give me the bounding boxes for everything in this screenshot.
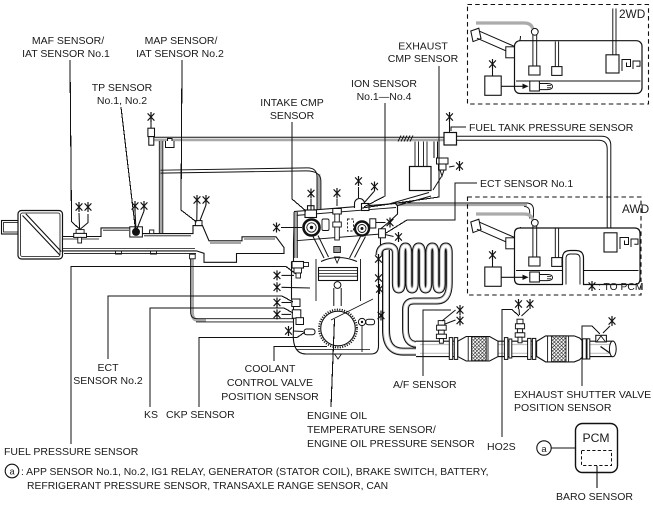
leader EXHAUST CMP label [362, 66, 439, 208]
in-tank pump parts [529, 257, 540, 266]
svg-text:COOLANT: COOLANT [245, 363, 296, 375]
engine assembly [292, 199, 398, 360]
fuel pump module right [604, 233, 617, 252]
asterisk AWD tank unit leader [492, 260, 494, 267]
AWD fuel tank detail box [468, 197, 642, 295]
MAF sensor on duct [76, 230, 84, 234]
asterisk fuel tank pressure sensor [449, 122, 451, 132]
tank top fitting circle [531, 28, 538, 35]
connector at left end of vapor line [148, 128, 155, 136]
leader MAP sensor label [181, 60, 197, 222]
svg-text:REFRIGERANT PRESSURE SENSOR, T: REFRIGERANT PRESSURE SENSOR, TRANSAXLE R… [27, 481, 388, 492]
svg-text:EXHAUST SHUTTER VALVE: EXHAUST SHUTTER VALVE [514, 389, 651, 401]
2WD fuel tank detail box [468, 5, 649, 105]
duct lower bumps [116, 251, 157, 254]
asterisk right engine box A [376, 222, 386, 224]
filler tube [480, 222, 514, 237]
svg-text:EXHAUST: EXHAUST [398, 41, 448, 53]
main catalytic converter [537, 336, 583, 362]
leader ENGINE OIL label [331, 319, 335, 407]
tail pipe open end [609, 341, 616, 357]
wire: gray fuel line dropping under duct and running to engine [192, 254, 206, 320]
svg-text:SENSOR: SENSOR [270, 110, 315, 122]
svg-text:TEMPERATURE SENSOR/: TEMPERATURE SENSOR/ [307, 424, 436, 436]
filler elbow [511, 36, 521, 53]
leader CKP SENSOR label [199, 332, 305, 407]
flange pair after downpipe [449, 338, 452, 360]
duct inner lines [63, 230, 276, 248]
transfer arrow [501, 85, 524, 87]
svg-text:2WD: 2WD [619, 7, 645, 21]
filler elbow [511, 227, 521, 244]
ECT sensor No.2 on block [292, 299, 300, 307]
catalytic converter (warm-up TWC) [458, 337, 498, 362]
leader EXHAUST SHUTTER VALVE label [582, 326, 600, 386]
pump supply lines from top [613, 9, 616, 55]
air intake system [2, 211, 285, 263]
exhaust shutter valve sensor box [596, 335, 607, 342]
ECT sensor No.1 boss on right edge [379, 229, 386, 238]
fuel tank outline 2WD [515, 41, 643, 94]
leader KS label [150, 308, 293, 407]
asterisks HO2S leaders [518, 309, 521, 315]
valve cover top inner edge [295, 208, 396, 216]
small cover detail rects [322, 219, 329, 231]
fuel tank outline AWD (saddle type) [515, 228, 641, 285]
asterisks A/F sensor leaders [442, 310, 456, 321]
svg-text:TP SENSOR: TP SENSOR [92, 82, 153, 94]
vent check valve box [506, 47, 518, 58]
dashed frame 2WD [468, 5, 649, 105]
flange after second cat [583, 339, 587, 359]
wire: evap hose from engine to canister (double diagonal) [366, 193, 429, 211]
small box hanging under vapor line [166, 139, 175, 148]
svg-text:ENGINE OIL PRESSURE SENSOR: ENGINE OIL PRESSURE SENSOR [307, 438, 475, 450]
svg-text:a: a [9, 467, 15, 477]
MAP sensor on duct [195, 221, 202, 226]
exhaust cam sprocket [355, 222, 369, 236]
wire: canister pipes up to vapor line [415, 142, 427, 167]
asterisk intake cam sensor [310, 199, 312, 210]
gray fuel hose to filler [476, 23, 533, 29]
piston [319, 268, 358, 281]
wire: vapor line left segment (gray hose) [154, 139, 445, 142]
asterisk ion sensor (plug) [336, 199, 338, 207]
wire: fuel pipe from engine to AWD tank filler area [396, 202, 528, 204]
leader MAF sensor label [70, 60, 79, 229]
asterisk right engine box B [385, 235, 394, 237]
oil temperature sensor (pill) [366, 319, 375, 324]
asterisks MAP pair [196, 205, 198, 221]
svg-text:a: a [541, 444, 547, 455]
asterisk 2WD tank unit leader [492, 69, 494, 76]
combustion chamber arc [321, 258, 357, 262]
knock sensor (KS) on block [292, 310, 301, 318]
svg-text:MAF SENSOR/: MAF SENSOR/ [32, 35, 104, 47]
asterisks TP pair [135, 211, 136, 230]
svg-text:HO2S: HO2S [487, 441, 516, 453]
svg-text:FUEL TANK PRESSURE SENSOR: FUEL TANK PRESSURE SENSOR [469, 122, 634, 134]
wire: gray drop line from connector to intake duct [160, 141, 163, 233]
intake cam sensor on cover [308, 206, 315, 211]
filler tube [480, 31, 514, 46]
exhaust line assembly [416, 319, 616, 362]
ion sensor / spark plug [333, 209, 342, 215]
fuel pipe connector at pan [296, 318, 304, 325]
engine right-edge box A [370, 219, 376, 228]
svg-text:No.1—No.4: No.1—No.4 [357, 91, 412, 103]
shutter butterfly plate [601, 347, 613, 355]
svg-text:IAT SENSOR No.1: IAT SENSOR No.1 [22, 48, 110, 60]
leader HO2S label [502, 310, 519, 438]
wire: vapor line right segment to AWD tank (double line) [457, 136, 611, 233]
asterisk exhaust cam sensor [358, 187, 360, 198]
filler cap [471, 28, 481, 41]
asterisk exhaust shutter valve leader [603, 326, 610, 333]
svg-text:AWD: AWD [622, 202, 649, 216]
filler cap [471, 219, 481, 232]
svg-text:: TO PCM: : TO PCM [598, 282, 643, 293]
A/F sensor on pipe [436, 321, 446, 344]
hatched flex section of vapor line [398, 136, 413, 142]
purge solenoid valve [433, 142, 448, 191]
note: asterisk TO PCM [589, 281, 644, 293]
asterisks engine-left column leaders [282, 274, 295, 276]
asterisk purge valve [449, 166, 455, 167]
fresh air snout [2, 221, 19, 235]
svg-text:ENGINE OIL: ENGINE OIL [307, 410, 367, 422]
dipstick tube diagonal [331, 299, 373, 320]
svg-text:CKP SENSOR: CKP SENSOR [166, 409, 235, 421]
sender unit box (lower-left) [485, 76, 501, 95]
svg-text:MAP SENSOR/: MAP SENSOR/ [145, 35, 218, 47]
wire: vacuum line across to engine, turning down as gray drop [317, 174, 320, 211]
svg-text:CMP SENSOR: CMP SENSOR [388, 53, 459, 65]
vapor/fuel line assembly (top horizontal run) [148, 128, 611, 322]
leader A/F SENSOR label [423, 310, 451, 376]
svg-text:IAT SENSOR No.2: IAT SENSOR No.2 [136, 48, 224, 60]
asterisk left of intake cam sprocket [281, 227, 302, 229]
flange pair after first cat [504, 338, 507, 360]
svg-text:POSITION SENSOR: POSITION SENSOR [514, 402, 612, 414]
CKP sensor pill at crank [304, 329, 315, 335]
oil pressure sensor (circle) [358, 318, 365, 325]
asterisk above vapor-line connector [150, 122, 152, 129]
nipple for gray drop line [150, 230, 154, 234]
EGR cooler / exhaust serpentine piping [379, 246, 449, 352]
oil pan drain [335, 354, 342, 359]
asterisk markers with short leaders [79, 69, 610, 333]
sender unit box (lower-left) [485, 267, 501, 286]
gray fuel hose to filler [476, 214, 533, 220]
fuel injector / rail on left [292, 262, 304, 269]
svg-text:SENSOR No.2: SENSOR No.2 [73, 375, 143, 387]
engine block outline [292, 204, 398, 355]
svg-text:POSITION SENSOR: POSITION SENSOR [221, 391, 319, 403]
leader TP sensor label [121, 107, 136, 230]
dashed frame AWD [468, 197, 642, 295]
pipe: outer shell / downpipe outer run to exhaust pipe [386, 250, 424, 352]
pipe: serpentine coil with five hairpin bends [379, 246, 449, 344]
intake cam sprocket [304, 220, 320, 236]
fuel tank pressure sensor (on vapor line) [444, 133, 457, 146]
leader INTAKE CMP label [292, 122, 306, 211]
svg-text:: APP SENSOR No.1, No.2, IG1 R: : APP SENSOR No.1, No.2, IG1 RELAY, GENE… [21, 467, 489, 478]
connecting rod and pin [334, 282, 341, 289]
crank gear (toothed) [319, 310, 357, 348]
leader ECT SENSOR No.1 label [386, 183, 477, 233]
svg-text:INTAKE CMP: INTAKE CMP [260, 97, 323, 109]
SEC_TANKS [70, 60, 600, 444]
air cleaner element (diagonal) [23, 216, 60, 256]
svg-text:ECT SENSOR No.1: ECT SENSOR No.1 [480, 178, 573, 190]
air cleaner box [18, 211, 63, 260]
svg-text:A/F SENSOR: A/F SENSOR [393, 379, 457, 391]
svg-text:KS: KS [144, 409, 158, 421]
intake duct body [63, 226, 285, 263]
exhaust cam sensor on cover [355, 199, 365, 209]
wire: vapor line left segment (black top edge) [154, 136, 445, 138]
cylinder walls [316, 259, 361, 301]
valves (V arrangement) [313, 236, 366, 259]
HO2S sensor on pipe [515, 319, 525, 343]
flange pair before second cat [528, 338, 531, 359]
in-tank pump parts [529, 66, 540, 75]
transfer arrow [501, 276, 524, 278]
svg-text:CONTROL VALVE: CONTROL VALVE [227, 377, 313, 389]
leader FUEL PRESSURE SENSOR label [71, 267, 296, 445]
vent check valve box [506, 238, 518, 249]
svg-text:No.1, No.2: No.1, No.2 [97, 95, 147, 107]
svg-text:ECT: ECT [98, 362, 120, 374]
svg-text:BARO SENSOR: BARO SENSOR [556, 491, 633, 503]
TP sensor on duct (black element) [130, 227, 143, 237]
svg-text:FUEL PRESSURE SENSOR: FUEL PRESSURE SENSOR [4, 446, 139, 458]
asterisks MAF pair [78, 213, 81, 229]
tank top fitting circle [531, 219, 538, 226]
leader ION SENSOR label [364, 103, 385, 207]
leader COOLANT CONTROL VALVE POSITION SENSOR label [274, 346, 327, 361]
svg-text:PCM: PCM [582, 431, 609, 445]
fuel pump module right [606, 55, 619, 73]
circled a connected to PCM [537, 441, 575, 455]
PCM box with BARO SENSOR dashed area [576, 424, 618, 489]
fuel hose down to injector (gray) [294, 212, 297, 258]
leader ECT SENSOR No.2 label [108, 296, 293, 359]
charcoal canister [410, 167, 432, 191]
leader FUEL TANK PRESSURE SENSOR label [451, 127, 466, 131]
svg-text:ION SENSOR: ION SENSOR [351, 78, 417, 90]
exhaust pipe main run [416, 341, 613, 356]
bottom note with circled a [5, 464, 488, 492]
